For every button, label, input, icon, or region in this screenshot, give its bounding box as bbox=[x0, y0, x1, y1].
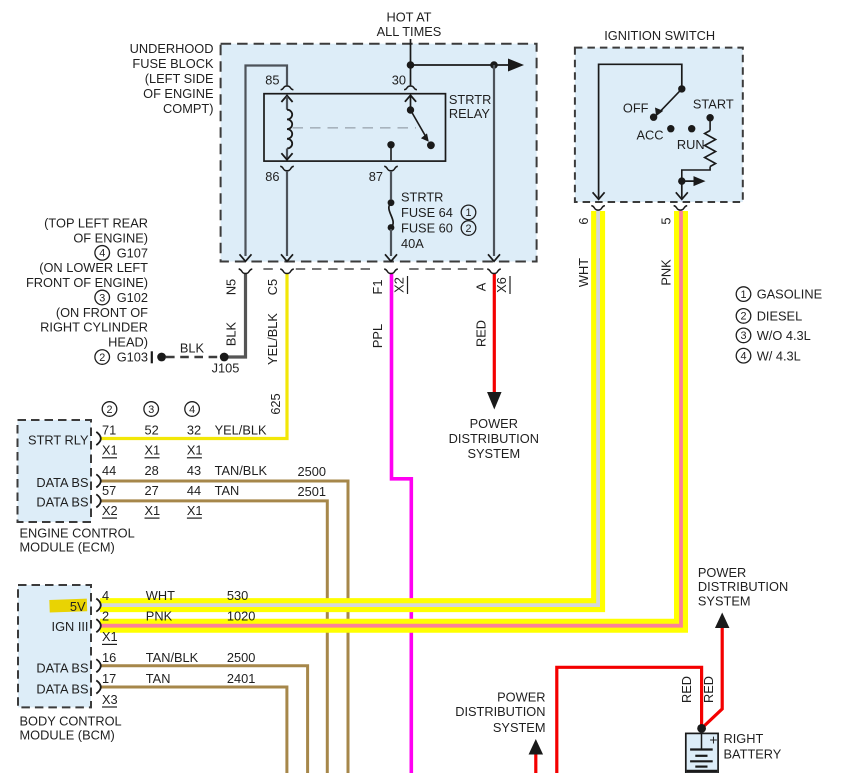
svg-text:(TOP LEFT REAR: (TOP LEFT REAR bbox=[44, 216, 148, 231]
svg-text:DISTRIBUTION: DISTRIBUTION bbox=[455, 704, 545, 719]
svg-text:HEAD): HEAD) bbox=[108, 335, 148, 350]
svg-text:44: 44 bbox=[187, 483, 201, 498]
svg-text:87: 87 bbox=[369, 169, 383, 184]
svg-text:(LEFT SIDE: (LEFT SIDE bbox=[145, 71, 214, 86]
svg-text:BATTERY: BATTERY bbox=[724, 746, 782, 761]
svg-text:G103: G103 bbox=[117, 349, 148, 364]
svg-text:STRT RLY: STRT RLY bbox=[28, 432, 89, 447]
svg-text:SYSTEM: SYSTEM bbox=[493, 720, 546, 735]
svg-text:DATA BS: DATA BS bbox=[36, 661, 88, 676]
svg-text:PNK: PNK bbox=[146, 609, 173, 624]
svg-text:X2: X2 bbox=[102, 503, 118, 518]
svg-text:5: 5 bbox=[659, 217, 674, 224]
svg-text:X2: X2 bbox=[392, 277, 407, 293]
svg-text:N5: N5 bbox=[224, 279, 239, 295]
svg-text:2401: 2401 bbox=[227, 671, 255, 686]
svg-text:SYSTEM: SYSTEM bbox=[467, 446, 520, 461]
svg-text:A: A bbox=[474, 282, 489, 291]
svg-text:2500: 2500 bbox=[227, 650, 255, 665]
svg-text:POWER: POWER bbox=[470, 416, 518, 431]
svg-text:(ON LOWER LEFT: (ON LOWER LEFT bbox=[39, 260, 148, 275]
svg-text:X6: X6 bbox=[494, 277, 509, 293]
svg-text:START: START bbox=[693, 97, 734, 112]
svg-text:4: 4 bbox=[740, 351, 746, 363]
svg-text:G107: G107 bbox=[117, 245, 148, 260]
svg-text:SYSTEM: SYSTEM bbox=[698, 593, 751, 608]
svg-text:ENGINE CONTROL: ENGINE CONTROL bbox=[20, 526, 135, 541]
svg-text:ALL TIMES: ALL TIMES bbox=[377, 24, 442, 39]
svg-text:OFF: OFF bbox=[623, 100, 649, 115]
svg-text:OF ENGINE: OF ENGINE bbox=[143, 86, 213, 101]
svg-text:X1: X1 bbox=[145, 443, 161, 458]
svg-text:57: 57 bbox=[102, 483, 116, 498]
svg-text:DIESEL: DIESEL bbox=[757, 309, 803, 324]
svg-text:X1: X1 bbox=[102, 629, 118, 644]
svg-text:85: 85 bbox=[265, 73, 279, 88]
svg-text:PPL: PPL bbox=[370, 324, 385, 348]
svg-text:(ON FRONT OF: (ON FRONT OF bbox=[56, 305, 148, 320]
svg-text:3: 3 bbox=[99, 292, 105, 304]
svg-text:2: 2 bbox=[102, 609, 109, 624]
svg-text:UNDERHOOD: UNDERHOOD bbox=[130, 41, 214, 56]
svg-text:FRONT OF ENGINE): FRONT OF ENGINE) bbox=[26, 275, 148, 290]
svg-text:71: 71 bbox=[102, 422, 116, 437]
svg-text:+: + bbox=[709, 732, 717, 748]
svg-text:POWER: POWER bbox=[698, 565, 746, 580]
svg-text:IGN III: IGN III bbox=[52, 619, 89, 634]
svg-text:TAN/BLK: TAN/BLK bbox=[146, 650, 199, 665]
svg-text:4: 4 bbox=[189, 404, 195, 416]
svg-text:30: 30 bbox=[392, 73, 406, 88]
svg-text:RUN: RUN bbox=[677, 137, 705, 152]
svg-text:5V: 5V bbox=[70, 599, 86, 614]
svg-text:RED: RED bbox=[701, 676, 716, 703]
svg-text:RIGHT: RIGHT bbox=[724, 731, 764, 746]
svg-text:X3: X3 bbox=[102, 692, 118, 707]
svg-text:G102: G102 bbox=[117, 290, 148, 305]
svg-text:1: 1 bbox=[740, 289, 746, 301]
svg-text:2: 2 bbox=[740, 311, 746, 323]
svg-text:COMPT): COMPT) bbox=[163, 101, 213, 116]
svg-text:32: 32 bbox=[187, 422, 201, 437]
svg-text:2: 2 bbox=[106, 404, 112, 416]
svg-text:TAN: TAN bbox=[215, 483, 240, 498]
svg-text:STRTR: STRTR bbox=[449, 92, 491, 107]
svg-text:HOT AT: HOT AT bbox=[386, 9, 431, 24]
svg-text:F1: F1 bbox=[370, 280, 385, 295]
svg-text:DATA BS: DATA BS bbox=[36, 682, 88, 697]
svg-text:1020: 1020 bbox=[227, 609, 255, 624]
svg-text:BODY CONTROL: BODY CONTROL bbox=[20, 714, 122, 729]
svg-text:2: 2 bbox=[99, 352, 105, 364]
svg-text:TAN: TAN bbox=[146, 671, 171, 686]
svg-text:ACC: ACC bbox=[636, 127, 663, 142]
svg-text:4: 4 bbox=[102, 588, 109, 603]
svg-text:POWER: POWER bbox=[497, 690, 545, 705]
svg-text:DISTRIBUTION: DISTRIBUTION bbox=[449, 431, 539, 446]
svg-text:6: 6 bbox=[576, 217, 591, 224]
svg-text:3: 3 bbox=[148, 404, 154, 416]
svg-text:2: 2 bbox=[465, 223, 471, 235]
svg-text:4: 4 bbox=[99, 248, 105, 260]
svg-text:2501: 2501 bbox=[298, 484, 326, 499]
svg-text:X1: X1 bbox=[102, 443, 118, 458]
svg-text:44: 44 bbox=[102, 463, 116, 478]
svg-text:FUSE 60: FUSE 60 bbox=[401, 221, 453, 236]
svg-text:FUSE 64: FUSE 64 bbox=[401, 205, 453, 220]
svg-text:RED: RED bbox=[679, 676, 694, 703]
svg-text:17: 17 bbox=[102, 671, 116, 686]
svg-text:RIGHT CYLINDER: RIGHT CYLINDER bbox=[40, 320, 148, 335]
svg-text:16: 16 bbox=[102, 650, 116, 665]
svg-text:STRTR: STRTR bbox=[401, 190, 443, 205]
svg-text:40A: 40A bbox=[401, 236, 424, 251]
svg-text:1: 1 bbox=[465, 207, 471, 219]
svg-text:86: 86 bbox=[265, 169, 279, 184]
svg-text:RED: RED bbox=[474, 320, 489, 347]
svg-text:X1: X1 bbox=[187, 503, 203, 518]
svg-text:52: 52 bbox=[145, 422, 159, 437]
svg-text:J105: J105 bbox=[212, 360, 240, 375]
svg-text:FUSE BLOCK: FUSE BLOCK bbox=[132, 56, 214, 71]
svg-text:BLK: BLK bbox=[224, 321, 239, 346]
svg-text:DISTRIBUTION: DISTRIBUTION bbox=[698, 579, 788, 594]
svg-text:YEL/BLK: YEL/BLK bbox=[215, 422, 267, 437]
svg-text:MODULE (BCM): MODULE (BCM) bbox=[20, 728, 115, 743]
svg-text:625: 625 bbox=[268, 393, 283, 414]
svg-text:27: 27 bbox=[145, 483, 159, 498]
svg-text:WHT: WHT bbox=[576, 258, 591, 287]
svg-text:28: 28 bbox=[145, 463, 159, 478]
svg-text:C5: C5 bbox=[265, 279, 280, 295]
svg-text:BLK: BLK bbox=[180, 340, 205, 355]
svg-text:2500: 2500 bbox=[298, 464, 326, 479]
svg-text:TAN/BLK: TAN/BLK bbox=[215, 463, 268, 478]
svg-text:W/O 4.3L: W/O 4.3L bbox=[757, 328, 811, 343]
svg-text:MODULE (ECM): MODULE (ECM) bbox=[20, 540, 115, 555]
svg-text:DATA BS: DATA BS bbox=[36, 475, 88, 490]
svg-text:43: 43 bbox=[187, 463, 201, 478]
svg-text:530: 530 bbox=[227, 588, 248, 603]
svg-text:GASOLINE: GASOLINE bbox=[757, 287, 822, 302]
svg-text:X1: X1 bbox=[187, 443, 203, 458]
svg-text:PNK: PNK bbox=[658, 259, 673, 286]
svg-text:W/ 4.3L: W/ 4.3L bbox=[757, 348, 801, 363]
svg-text:WHT: WHT bbox=[146, 588, 175, 603]
svg-text:RELAY: RELAY bbox=[449, 106, 490, 121]
svg-text:X1: X1 bbox=[145, 503, 161, 518]
svg-text:OF ENGINE): OF ENGINE) bbox=[73, 230, 148, 245]
svg-text:3: 3 bbox=[740, 330, 746, 342]
svg-text:DATA BS: DATA BS bbox=[36, 495, 88, 510]
svg-text:YEL/BLK: YEL/BLK bbox=[265, 313, 280, 365]
svg-text:IGNITION SWITCH: IGNITION SWITCH bbox=[604, 28, 715, 43]
